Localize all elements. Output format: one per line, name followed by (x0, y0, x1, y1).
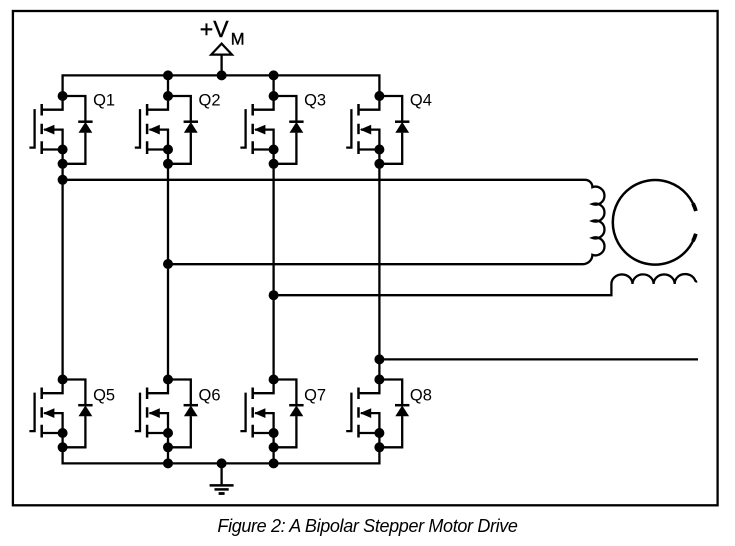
svg-text:Q8: Q8 (410, 387, 432, 405)
svg-text:Q7: Q7 (304, 387, 326, 405)
svg-text:+V: +V (200, 16, 229, 42)
svg-text:Q3: Q3 (304, 91, 326, 109)
svg-text:Figure 2: A Bipolar Stepper Mo: Figure 2: A Bipolar Stepper Motor Drive (217, 516, 517, 536)
svg-text:M: M (231, 30, 245, 48)
svg-text:Q6: Q6 (199, 387, 221, 405)
svg-text:Q2: Q2 (199, 91, 221, 109)
svg-text:Q1: Q1 (93, 91, 115, 109)
svg-text:Q4: Q4 (410, 91, 432, 109)
svg-text:Q5: Q5 (93, 387, 115, 405)
